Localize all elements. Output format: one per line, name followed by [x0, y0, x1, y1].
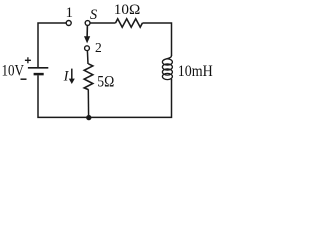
wire node2 to resistor 5ohm [86, 51, 89, 64]
switch throw arrowhead [84, 36, 90, 43]
resistor 10ohm zigzag [116, 19, 143, 27]
inductor L1 entry curve [163, 56, 171, 81]
battery - sign [21, 78, 27, 80]
svg-text:10Ω: 10Ω [114, 2, 141, 18]
switch throw arrow shaft [86, 26, 88, 38]
battery + sign [25, 57, 31, 63]
svg-text:10mH: 10mH [178, 63, 213, 80]
current arrow down [71, 69, 73, 80]
wire bottom + left lower + right lower [38, 75, 172, 117]
junction dot [86, 115, 91, 120]
terminal 1 circle [66, 21, 71, 26]
switch S pivot circle [85, 21, 90, 26]
wire top-left: battery up to terminal 1 [38, 23, 66, 67]
battery V1 short plate (-) [34, 73, 44, 76]
wire resistor to bottom junction [87, 89, 89, 117]
svg-text:10V: 10V [2, 63, 25, 80]
wire 10ohm to top-right corner down to inductor [142, 23, 171, 56]
svg-text:1: 1 [65, 5, 73, 21]
svg-text:5Ω: 5Ω [97, 74, 114, 91]
svg-text:I: I [63, 68, 70, 84]
terminal 2 circle [85, 46, 90, 51]
wire S to resistor 10ohm [90, 22, 116, 24]
resistor 5ohm zigzag [84, 64, 93, 90]
inductor L1 coil loops [162, 59, 172, 65]
battery V1 long plate (+) [28, 67, 48, 69]
svg-text:2: 2 [95, 40, 102, 55]
svg-text:S: S [90, 7, 98, 23]
